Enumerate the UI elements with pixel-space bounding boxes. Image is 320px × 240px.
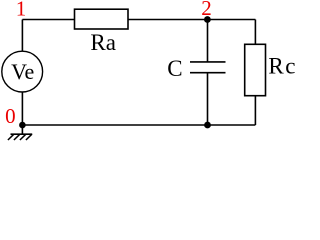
- capacitor C bottom lead: [207, 73, 209, 125]
- bottom wire node0 to Rc corner: [22, 124, 255, 126]
- resistor Rc bottom lead: [254, 96, 256, 125]
- capacitor C top lead: [207, 20, 209, 62]
- wire source to node 0: [21, 92, 23, 125]
- resistor Rc top lead: [254, 20, 256, 45]
- svg-text:Ra: Ra: [90, 30, 116, 55]
- wire node1 to Ra: [22, 19, 74, 21]
- svg-text:0: 0: [5, 104, 16, 128]
- junction node 0: [19, 122, 26, 129]
- svg-text:Rc: Rc: [268, 53, 297, 78]
- wire node1 down to source: [21, 20, 23, 52]
- wire Ra to node2 to Rc corner: [128, 19, 255, 21]
- resistor Rc: [245, 44, 266, 95]
- svg-text:Ve: Ve: [11, 59, 34, 84]
- junction node 2: [204, 16, 211, 23]
- resistor Ra: [75, 9, 129, 29]
- svg-text:1: 1: [16, 0, 27, 20]
- capacitor C plates: [190, 61, 226, 63]
- junction capacitor bottom: [204, 122, 211, 129]
- voltage source Ve: [2, 51, 43, 92]
- svg-text:C: C: [167, 56, 182, 81]
- ground: [8, 125, 32, 140]
